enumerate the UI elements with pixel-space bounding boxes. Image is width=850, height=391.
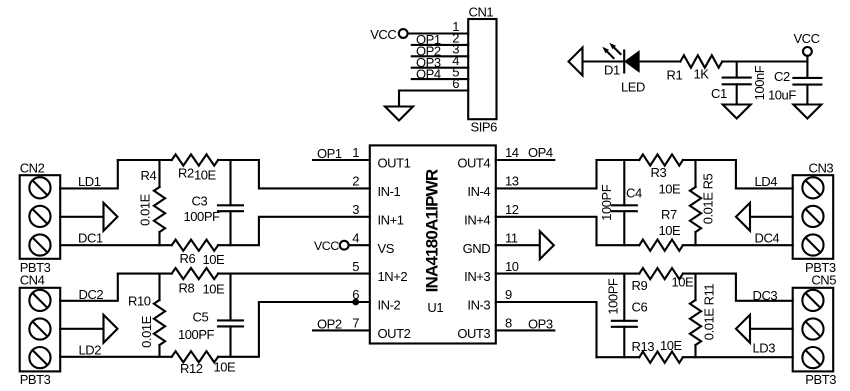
svg-text:D1: D1 [604,63,620,78]
svg-text:IN+3: IN+3 [464,269,490,284]
svg-text:LD1: LD1 [78,174,101,189]
svg-text:IN-4: IN-4 [467,184,490,199]
svg-text:1: 1 [352,145,359,160]
svg-text:CN5: CN5 [811,272,836,287]
svg-text:LED: LED [621,79,645,94]
svg-text:R1: R1 [667,68,683,83]
wire R2 to corner, down to U1 pin 2 [218,160,370,188]
svg-text:C3: C3 [192,194,208,209]
node DC4 / wire rail to CN3-3 [683,231,793,246]
wire U1 pin 13 up to rail [496,160,597,188]
wire R8 to U1 pin 5 [218,273,370,275]
resistor R13 10E [632,338,683,363]
resistor R10 0.01E (shunt) [128,274,165,357]
wire U1 pin 10 / top rail [496,273,640,275]
svg-text:LD3: LD3 [753,341,776,356]
svg-text:C5: C5 [193,310,209,325]
wire R12 to corner, up to U1 pin 6 [218,302,370,357]
wire CN1 pin 6 to ground [399,91,468,105]
svg-text:R6: R6 [180,251,196,266]
svg-text:3: 3 [352,202,359,217]
svg-text:VCC: VCC [793,31,819,46]
svg-text:10E: 10E [214,360,237,375]
CN1 pin numbers 1-6 [452,19,459,91]
connector CN1 SIP6 [468,4,497,134]
LED D1 [602,43,645,95]
svg-text:IN+4: IN+4 [464,212,490,227]
svg-text:IN-2: IN-2 [378,298,401,313]
ground below CN1 pin 6 [385,107,413,121]
node DC1 / bottom rail wire [60,231,172,246]
node DC2 / wire CN4-1 to rail [60,274,118,302]
capacitor C6 100PF [605,274,647,358]
U1 pin numbers left 1-7 [352,145,359,330]
svg-text:9: 9 [505,287,512,302]
svg-text:SIP6: SIP6 [471,120,498,135]
svg-text:VCC: VCC [314,239,339,253]
svg-text:OUT1: OUT1 [378,156,411,171]
connector CN2 PBT3 [20,161,61,275]
svg-text:13: 13 [505,174,519,189]
top rail wire to C4 and R3 [597,159,640,161]
connector CN3 PBT3 [793,161,836,275]
connector CN4 PBT3 [20,272,61,387]
svg-text:OUT3: OUT3 [457,326,490,341]
wire CN2-2 to ground [60,216,102,218]
node LD2 / bottom rail wire [60,343,172,358]
VCC terminal at U1 pin 4 VS [314,239,370,253]
capacitor C5 100PF [178,274,243,357]
svg-text:100PF: 100PF [599,184,614,221]
svg-text:10uF: 10uF [768,88,796,103]
svg-text:OUT4: OUT4 [457,156,490,171]
node OP2 / wire to U1 pin 7 [313,317,370,332]
resistor R2 10E [172,154,218,182]
node OP3 / wire to CN1 pin 4 [412,55,468,70]
svg-text:100PF: 100PF [605,278,620,315]
top rail wire (LD1 net) [118,159,172,161]
svg-text:DC3: DC3 [753,288,778,303]
svg-text:10E: 10E [203,252,226,267]
svg-text:10E: 10E [203,281,226,296]
capacitor C2 10uF [768,69,821,105]
svg-text:OP3: OP3 [528,317,553,332]
wire CN3-2 to ground [750,216,793,218]
wire CN5-2 to ground [750,328,793,330]
svg-text:10E: 10E [660,338,683,353]
svg-text:100PF: 100PF [184,209,221,224]
svg-text:100PF: 100PF [178,327,215,342]
svg-text:0.01E: 0.01E [139,315,154,348]
node OP4 / wire from U1 pin 14 [496,145,555,160]
svg-text:0.01E: 0.01E [137,193,152,226]
ground below C1 [723,105,751,119]
wire U1 pin 11 GND [496,244,540,246]
svg-text:10E: 10E [659,223,682,238]
ground at CN5-2 [736,315,750,343]
svg-text:R7: R7 [661,207,677,222]
resistor R12 10E [172,351,236,376]
ground at LED cathode [569,48,583,76]
wire LED to R1 [640,60,681,62]
resistor R6 10E [172,240,225,267]
svg-text:1K: 1K [694,67,710,82]
svg-text:10E: 10E [659,182,682,197]
node DC3 / wire rail to CN5-1 [683,274,793,303]
ground at CN3-2 [736,203,750,231]
svg-text:IN-1: IN-1 [378,184,401,199]
svg-text:C6: C6 [632,300,648,315]
ground at U1 pin 11 [540,231,554,259]
resistor R5 0.01E (shunt) [690,160,716,245]
node OP2 / wire to CN1 pin 3 [412,44,468,59]
svg-text:7: 7 [352,316,359,331]
svg-text:CN4: CN4 [20,272,45,287]
svg-text:OUT2: OUT2 [378,326,411,341]
svg-text:0.01E R5: 0.01E R5 [700,173,715,224]
svg-text:DC4: DC4 [755,231,780,246]
svg-text:R9: R9 [632,278,648,293]
svg-text:R13: R13 [632,339,655,354]
svg-text:C2: C2 [774,69,790,84]
svg-text:CN3: CN3 [809,161,834,176]
svg-text:DC1: DC1 [78,231,103,246]
svg-text:12: 12 [505,202,519,217]
svg-text:OP4: OP4 [528,145,553,160]
svg-text:CN1: CN1 [469,4,494,19]
wire R6 to corner, up to U1 pin 3 [218,217,370,245]
node OP1 / wire to CN1 pin 2 [412,32,468,47]
ground at CN4-2 [104,315,118,343]
VCC terminal at CN1 pin 1 [370,27,407,42]
wire CN4-2 to ground [60,328,102,330]
svg-text:R2: R2 [178,165,194,180]
svg-text:VS: VS [378,241,395,256]
svg-text:R3: R3 [651,165,667,180]
resistor R7 10E [639,207,683,251]
node LD4 / wire rail to CN3-1 [683,160,793,189]
svg-text:DC2: DC2 [79,287,104,302]
svg-text:C4: C4 [626,186,642,201]
node LD3 / wire rail to CN5-3 [683,341,793,358]
svg-text:PBT3: PBT3 [805,372,836,387]
resistor R3 10E [639,154,683,196]
svg-text:U1: U1 [427,300,443,315]
svg-text:5: 5 [352,259,359,274]
svg-text:0.01E R11: 0.01E R11 [702,284,717,341]
svg-text:C1: C1 [711,86,727,101]
svg-text:2: 2 [352,174,359,189]
wire U1 pin 12 down to bottom rail [496,217,597,245]
svg-text:10: 10 [505,259,519,274]
wire ground to LED D1 [583,60,625,62]
capacitor C4 100PF [599,160,642,245]
capacitor C1 100nF [711,62,767,105]
svg-text:R10: R10 [128,294,151,309]
svg-text:8: 8 [505,316,512,331]
svg-text:GND: GND [463,241,491,256]
resistor R1 1K [667,55,723,82]
svg-text:IN+1: IN+1 [378,212,404,227]
svg-text:10E: 10E [194,167,217,182]
junction at U1 pin 6 [352,299,359,306]
U1 pin numbers right 14-8 [505,145,519,330]
node LD1 / wire CN2-1 to rail [60,160,118,189]
svg-text:100nF: 100nF [752,65,767,100]
svg-text:CN2: CN2 [20,161,45,176]
svg-text:1N+2: 1N+2 [378,269,408,284]
svg-text:VCC: VCC [370,27,396,42]
resistor R4 0.01E (shunt) [137,160,165,245]
svg-text:11: 11 [505,230,518,245]
svg-text:PBT3: PBT3 [20,372,51,387]
wire R1 to VCC rail [722,60,807,62]
bottom rail wire [597,356,640,358]
wire U1 pin 9 down to bottom rail [496,302,597,357]
wire VCC to CN1 pin 1 [408,32,469,34]
svg-text:14: 14 [505,145,519,160]
ground at CN2-2 [104,203,118,231]
svg-text:R12: R12 [180,361,203,376]
svg-text:LD4: LD4 [755,174,778,189]
resistor R8 10E [172,268,225,296]
node OP4 / wire to CN1 pin 5 [412,66,468,81]
svg-text:R8: R8 [179,280,195,295]
svg-text:LD2: LD2 [79,343,102,358]
VCC terminal top right [793,31,819,78]
svg-text:10E: 10E [672,274,695,289]
svg-text:IN-3: IN-3 [467,298,490,313]
capacitor C3 100PF [184,160,244,245]
resistor R11 0.01E (shunt) [690,274,717,358]
svg-text:4: 4 [352,230,359,245]
op-amp IC U1 INA4180A1IPWR [370,145,496,343]
svg-text:INA4180A1IPWR: INA4180A1IPWR [423,169,442,292]
top rail wire (DC2 net) [118,273,172,275]
svg-text:R4: R4 [141,168,157,183]
bottom rail wire [597,244,640,246]
resistor R9 10E [632,268,695,293]
node OP1 / wire to U1 pin 1 [313,146,370,161]
connector CN5 PBT3 [793,272,837,387]
node OP3 / wire from U1 pin 8 [496,317,555,332]
ground below C2 [793,105,821,119]
